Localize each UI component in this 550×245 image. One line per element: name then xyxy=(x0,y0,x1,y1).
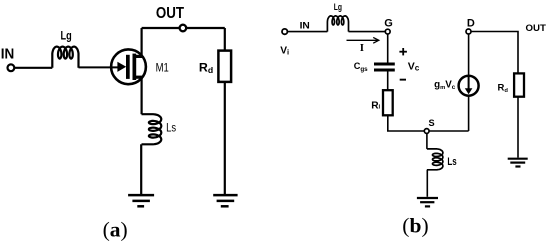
label plus xyxy=(399,48,407,55)
svg-text:I: I xyxy=(360,42,364,54)
wire G down to Cgs xyxy=(387,34,389,63)
wire D to OUT corner xyxy=(471,32,518,74)
svg-text:D: D xyxy=(467,18,475,30)
arrow I xyxy=(347,37,379,43)
wire top rail xyxy=(142,27,225,29)
resistor Rd (b) xyxy=(514,73,524,96)
wire to Rd xyxy=(224,28,226,51)
wire source to D xyxy=(468,34,470,76)
node S xyxy=(424,129,429,134)
resistor Ri xyxy=(383,90,393,115)
resistor Rd xyxy=(218,51,231,82)
svg-text:Ri: Ri xyxy=(371,100,380,111)
inductor Ls (b) xyxy=(427,149,443,170)
wire source down xyxy=(141,77,143,114)
svg-text:IN: IN xyxy=(300,21,310,32)
svg-text:G: G xyxy=(384,17,393,29)
wire Rd to ground (b) xyxy=(517,97,519,158)
node D xyxy=(466,29,471,34)
node G xyxy=(385,29,390,34)
wire IN to Lg xyxy=(14,67,52,69)
svg-text:(a): (a) xyxy=(103,217,128,241)
node Vi terminal xyxy=(282,29,287,34)
svg-text:OUT: OUT xyxy=(526,23,547,33)
wire Ls to ground xyxy=(140,144,142,194)
wire Lg to gate xyxy=(79,66,120,68)
svg-text:Lg: Lg xyxy=(334,2,342,12)
ground (right, left circuit) xyxy=(213,195,237,206)
ground (left circuit under Ls) xyxy=(128,195,154,206)
wire drain up xyxy=(141,28,143,57)
label minus xyxy=(400,79,406,81)
transistor M1 xyxy=(111,49,146,84)
svg-text:S: S xyxy=(429,118,435,128)
svg-text:M1: M1 xyxy=(156,61,169,75)
svg-text:Ls: Ls xyxy=(166,121,176,135)
node IN terminal xyxy=(7,64,14,71)
wire Ri down xyxy=(388,115,469,131)
svg-text:Ls: Ls xyxy=(447,156,456,168)
node OUT xyxy=(180,25,187,32)
wire Rd to ground xyxy=(224,82,226,194)
svg-text:OUT: OUT xyxy=(156,5,185,22)
svg-text:(b): (b) xyxy=(402,213,428,237)
inductor Lg (b) xyxy=(327,16,348,32)
wire Vi to Lg xyxy=(287,31,327,33)
ground under Rd (b) xyxy=(508,159,528,167)
current source gmVc xyxy=(459,76,479,96)
svg-text:Rd: Rd xyxy=(498,83,509,94)
inductor Lg xyxy=(52,47,78,68)
inductor Ls xyxy=(142,114,162,144)
ground under Ls (b) xyxy=(417,198,438,206)
capacitor Cgs xyxy=(374,64,395,70)
svg-text:Vc: Vc xyxy=(408,60,420,72)
wire source bottom xyxy=(468,96,470,131)
svg-text:Lg: Lg xyxy=(61,29,72,43)
svg-text:Rd: Rd xyxy=(199,61,213,75)
wire S down to Ls xyxy=(426,133,428,149)
svg-text:IN: IN xyxy=(1,46,15,62)
wire Ls to ground (b) xyxy=(426,170,428,197)
svg-text:Cgs: Cgs xyxy=(354,61,368,73)
svg-text:gmVc: gmVc xyxy=(434,80,456,91)
svg-text:Vi: Vi xyxy=(280,45,289,56)
wire Lg to G xyxy=(349,31,386,33)
wire Cgs to Ri xyxy=(387,71,389,90)
